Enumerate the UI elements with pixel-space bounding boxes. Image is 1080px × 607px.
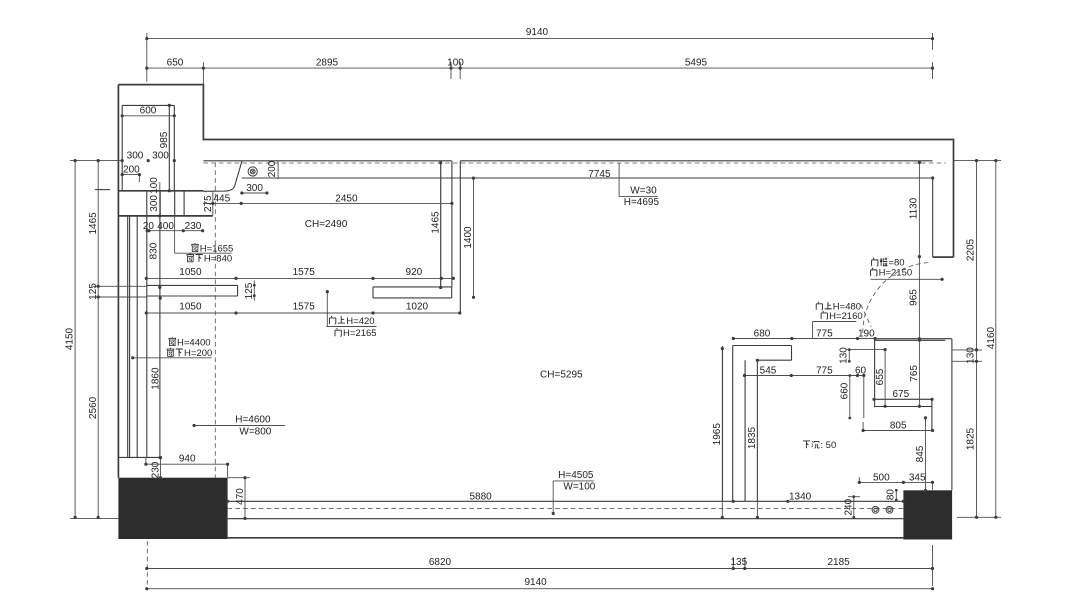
svg-text:H=4505: H=4505 (558, 470, 594, 481)
svg-text:680: 680 (754, 328, 771, 339)
dots 500/345 (858, 481, 861, 484)
svg-text:5495: 5495 (685, 58, 708, 69)
svg-text:775: 775 (816, 328, 833, 339)
svg-text:1400: 1400 (463, 226, 474, 249)
svg-text:130: 130 (839, 347, 850, 364)
svg-text:445: 445 (213, 193, 230, 204)
svg-text:830: 830 (148, 242, 159, 259)
top band sill line lower (242, 177, 933, 179)
dots 1860 dim (159, 297, 162, 300)
wall pier x=460.3 (459, 161, 461, 313)
dots 20400230 (146, 229, 149, 232)
svg-text:H=2165: H=2165 (343, 328, 377, 339)
dim 130 vert lowerroom (846, 350, 885, 362)
lower-room west wall band (723, 346, 733, 502)
lower-room top wall step (733, 346, 792, 361)
wall block inner top (122, 104, 174, 106)
svg-text:1465: 1465 (88, 212, 99, 235)
wall bottom outer between columns (228, 537, 904, 539)
dim left chain line (97, 161, 99, 518)
wall line y=215.9 (118, 215, 212, 217)
svg-text:655: 655 (875, 368, 886, 385)
dot H4600 leader (193, 424, 196, 427)
svg-text:W=100: W=100 (563, 482, 595, 493)
lower-room shaft band (745, 360, 757, 501)
svg-text:2205: 2205 (966, 238, 977, 261)
stub line left margin (95, 189, 110, 191)
partition band right (373, 287, 452, 298)
svg-text:1835: 1835 (747, 426, 758, 449)
svg-text:H=4600: H=4600 (235, 414, 271, 425)
svg-text:1860: 1860 (150, 367, 161, 390)
svg-text:H=4695: H=4695 (624, 197, 660, 208)
floor drain pair bottom right (872, 506, 893, 513)
svg-text:H=420: H=420 (346, 316, 374, 327)
label 窗H=4400 (169, 337, 211, 348)
svg-text:4150: 4150 (65, 327, 76, 350)
window mullion lines left wall (128, 191, 147, 458)
svg-text:920: 920 (406, 267, 423, 278)
svg-text:1020: 1020 (406, 302, 429, 313)
dots right dims (975, 159, 978, 162)
dots 300 sink (240, 191, 243, 194)
svg-text:1050: 1050 (179, 302, 202, 313)
dim 1050/1575/920 (146, 277, 453, 279)
window sill bottom (118, 456, 160, 458)
shower room left wall (874, 339, 876, 408)
dots 80/240 (895, 489, 898, 492)
dots 200 dim (121, 173, 124, 176)
dim 1050/1575/1020 (146, 312, 460, 314)
svg-text:765: 765 (909, 365, 920, 382)
top band sill line upper (203, 160, 932, 162)
dots 830 dim (158, 214, 161, 217)
dots 300300 dim (121, 159, 124, 162)
dim leader door 420 (326, 292, 376, 327)
dim 1400 vert (473, 178, 475, 297)
dim 545/775/60 (745, 375, 864, 377)
dots 805/845 (862, 429, 865, 432)
dim 470 vert (228, 478, 250, 519)
svg-text:230: 230 (185, 221, 202, 232)
dim 765 vert (918, 340, 920, 406)
sink counter diagonal (203, 161, 242, 191)
wall outer top-left block and top wall (118, 85, 953, 258)
dim 80 vert (895, 490, 897, 500)
wall pier x=451.9 (451, 161, 453, 287)
dot H4505 leader (552, 512, 555, 515)
dim bottom 9140 (147, 545, 933, 589)
dots 1465/1400 (439, 161, 442, 164)
svg-text:100: 100 (447, 58, 464, 69)
label 门槛=80 (872, 258, 905, 269)
svg-text:470: 470 (235, 488, 246, 505)
svg-text:660: 660 (839, 382, 850, 399)
svg-text:H=2150: H=2150 (879, 268, 913, 279)
shower room inner bottom line (875, 399, 932, 406)
svg-text:650: 650 (167, 58, 184, 69)
svg-text:2450: 2450 (335, 193, 358, 204)
svg-text:240: 240 (844, 498, 855, 515)
svg-text:230: 230 (151, 461, 162, 478)
dim 445+2450 (203, 202, 452, 204)
svg-text:190: 190 (858, 328, 875, 339)
svg-text:5880: 5880 (469, 492, 492, 503)
svg-text:200: 200 (267, 160, 278, 177)
dim 240 vert (848, 497, 860, 518)
wall block inner right vertical pair (169, 105, 174, 190)
dim ext 200 block (138, 175, 140, 182)
label 门H=2150 (871, 268, 913, 279)
dots left dims (74, 159, 77, 162)
dim leader H=4600 (194, 425, 285, 427)
dots 600 dim (121, 114, 124, 117)
label 下沉50 (803, 440, 836, 451)
dots 5880/1340 (226, 500, 229, 503)
dots bottom dims (145, 567, 148, 570)
svg-text:CH=2490: CH=2490 (305, 219, 348, 230)
dashed axis top band (203, 162, 946, 164)
dashed door2 leaf (861, 305, 871, 328)
svg-text:300: 300 (127, 150, 144, 161)
svg-text:345: 345 (909, 472, 926, 483)
svg-text:600: 600 (140, 106, 157, 117)
dashed axis left vertical (214, 163, 216, 478)
dim 9140 top (147, 38, 933, 40)
svg-text:805: 805 (890, 421, 907, 432)
svg-text:H=2160: H=2160 (829, 311, 863, 322)
dim 300 sink (242, 192, 267, 194)
svg-text:W=800: W=800 (239, 426, 271, 437)
wall x=931.9 below shower (931, 407, 933, 430)
dim 680/775/190 (733, 338, 875, 340)
dim leader 7745 W=30 (619, 163, 658, 197)
dim 1130/965 vert (918, 163, 920, 339)
partition band left (147, 285, 238, 296)
svg-text:1575: 1575 (293, 302, 316, 313)
svg-text:CH=5295: CH=5295 (540, 370, 583, 381)
svg-text:1825: 1825 (966, 427, 977, 450)
dots 125 (253, 284, 256, 287)
label 门上H=480 (816, 302, 861, 313)
svg-text:275: 275 (203, 195, 214, 212)
dashed door1 swing arc (863, 263, 931, 334)
wall block inner left vertical (121, 105, 123, 190)
svg-text:500: 500 (873, 472, 890, 483)
label 窗H=1655 (191, 243, 233, 254)
dashed axis bottom band (228, 508, 904, 510)
dim 650/2895/100/5495 (147, 67, 933, 69)
svg-text:H=4400: H=4400 (177, 337, 211, 348)
dots 1965/1835 (721, 347, 724, 350)
svg-text:1130: 1130 (908, 197, 919, 219)
dim left 4150 line (74, 161, 76, 518)
dots 545/775/60 (743, 374, 746, 377)
dim right 4160 line (995, 161, 997, 518)
dots 1130/965 (918, 161, 921, 164)
dots 940/230/470 (144, 463, 147, 466)
dim 500/345 (859, 477, 932, 490)
svg-text:200: 200 (123, 165, 140, 176)
svg-text:940: 940 (179, 454, 196, 465)
svg-text:130: 130 (966, 347, 977, 364)
dim 845 vert (925, 418, 927, 491)
dim 1965 vert (721, 349, 723, 518)
svg-text:9140: 9140 (526, 27, 549, 38)
dim 675 (874, 398, 932, 400)
svg-text:1575: 1575 (293, 267, 316, 278)
svg-text:20: 20 (143, 221, 155, 232)
dim 200 block (122, 174, 139, 176)
dim leader window4400 (133, 357, 212, 359)
shower room right wall to column (951, 339, 953, 491)
svg-text:80: 80 (885, 489, 896, 501)
dots 660 (848, 374, 851, 377)
dim bottom 6820/135/2185 (147, 557, 933, 570)
svg-text:1340: 1340 (789, 492, 812, 503)
dots 655/765/675 (884, 348, 887, 351)
wall pier x=440.7 (440, 161, 442, 288)
wall entry closure (933, 256, 954, 258)
dim 20/400/230 (147, 230, 202, 232)
svg-text:775: 775 (816, 365, 833, 376)
window interior line x=160 (159, 191, 161, 458)
wall left outer (117, 85, 119, 478)
svg-text:2895: 2895 (316, 58, 339, 69)
dim right extensions (952, 161, 1001, 518)
svg-text:4160: 4160 (986, 326, 997, 349)
svg-text:2560: 2560 (88, 396, 99, 419)
svg-text:965: 965 (908, 289, 919, 306)
svg-text:985: 985 (159, 131, 170, 148)
svg-text:9140: 9140 (524, 577, 547, 588)
svg-text:300: 300 (152, 150, 169, 161)
label 门H=2160 (821, 311, 863, 322)
svg-text:845: 845 (915, 445, 926, 462)
shower room top double line (875, 339, 952, 341)
svg-text:2185: 2185 (827, 557, 850, 568)
dim leader entry door (871, 278, 943, 280)
svg-text:1465: 1465 (431, 211, 442, 234)
svg-text:1965: 1965 (712, 423, 723, 446)
dim 1835 vert (756, 360, 758, 517)
dots top dims (145, 37, 148, 40)
dim left extensions (70, 161, 147, 519)
svg-text:545: 545 (760, 365, 777, 376)
dim 200 band vert (277, 161, 279, 179)
floor drain sink (248, 167, 257, 176)
jamb x=863.8 (862, 376, 865, 431)
shower room bottom wall (875, 406, 932, 408)
dim leader door480 (813, 322, 857, 339)
dim 600 (122, 115, 174, 117)
bottom band top line (228, 500, 904, 502)
label 窗下H=200 (167, 348, 213, 359)
label 窗下H=840 (187, 253, 233, 264)
wall entry inner vertical (932, 178, 934, 257)
dim 230 vert (160, 458, 162, 478)
dim 1465 vert pier (440, 163, 442, 288)
dots partition dims row2 (145, 311, 148, 314)
svg-text:: 50: : 50 (820, 440, 836, 451)
dim 940 (146, 458, 228, 478)
label 门上H=420 (330, 316, 375, 327)
column right (903, 490, 952, 539)
dim right 2205/130/1825 line (976, 161, 978, 518)
dim 275 vert (212, 191, 214, 215)
dim 100 vert block (159, 182, 161, 191)
svg-text:125: 125 (88, 283, 99, 300)
dots 680/775/190 (732, 337, 735, 340)
svg-text:H=840: H=840 (204, 254, 232, 265)
dim 655 vert (884, 350, 886, 407)
svg-text:W=30: W=30 (630, 186, 657, 197)
svg-text:6820: 6820 (429, 557, 452, 568)
dots partition dims row1 (145, 277, 148, 280)
dim leader window1655 (175, 216, 232, 253)
svg-text:675: 675 (892, 389, 909, 400)
svg-text:100: 100 (149, 177, 160, 194)
dash extension bottom-left (146, 541, 148, 589)
wall line y=190.8 (118, 190, 203, 192)
svg-text:300: 300 (149, 195, 160, 212)
dot entry leader (941, 278, 944, 281)
dot window4400 leader (131, 356, 134, 359)
dots 985 dim (168, 104, 171, 107)
svg-text:300: 300 (246, 183, 263, 194)
bottom band inner line (228, 518, 904, 520)
dim 125 vert (253, 281, 255, 301)
svg-text:400: 400 (157, 221, 174, 232)
label 门H=2165 (335, 328, 377, 339)
svg-text:135: 135 (730, 557, 747, 568)
column left (118, 478, 227, 539)
dim 660 vert (849, 376, 851, 419)
dim 805 (863, 430, 932, 432)
svg-text:1050: 1050 (179, 267, 202, 278)
dot door leader (326, 290, 329, 293)
svg-text:60: 60 (855, 365, 867, 376)
svg-text:125: 125 (244, 282, 255, 299)
dots 275/445/2450 (211, 202, 214, 205)
svg-text:7745: 7745 (588, 169, 611, 180)
dim leader H=4505 (553, 481, 594, 514)
dots 7745 (931, 176, 934, 179)
svg-text:H=200: H=200 (184, 348, 212, 359)
wall small room verticals (160, 191, 184, 216)
dim extension verticals top (147, 33, 933, 85)
dots 130 lowerroom (848, 348, 851, 351)
